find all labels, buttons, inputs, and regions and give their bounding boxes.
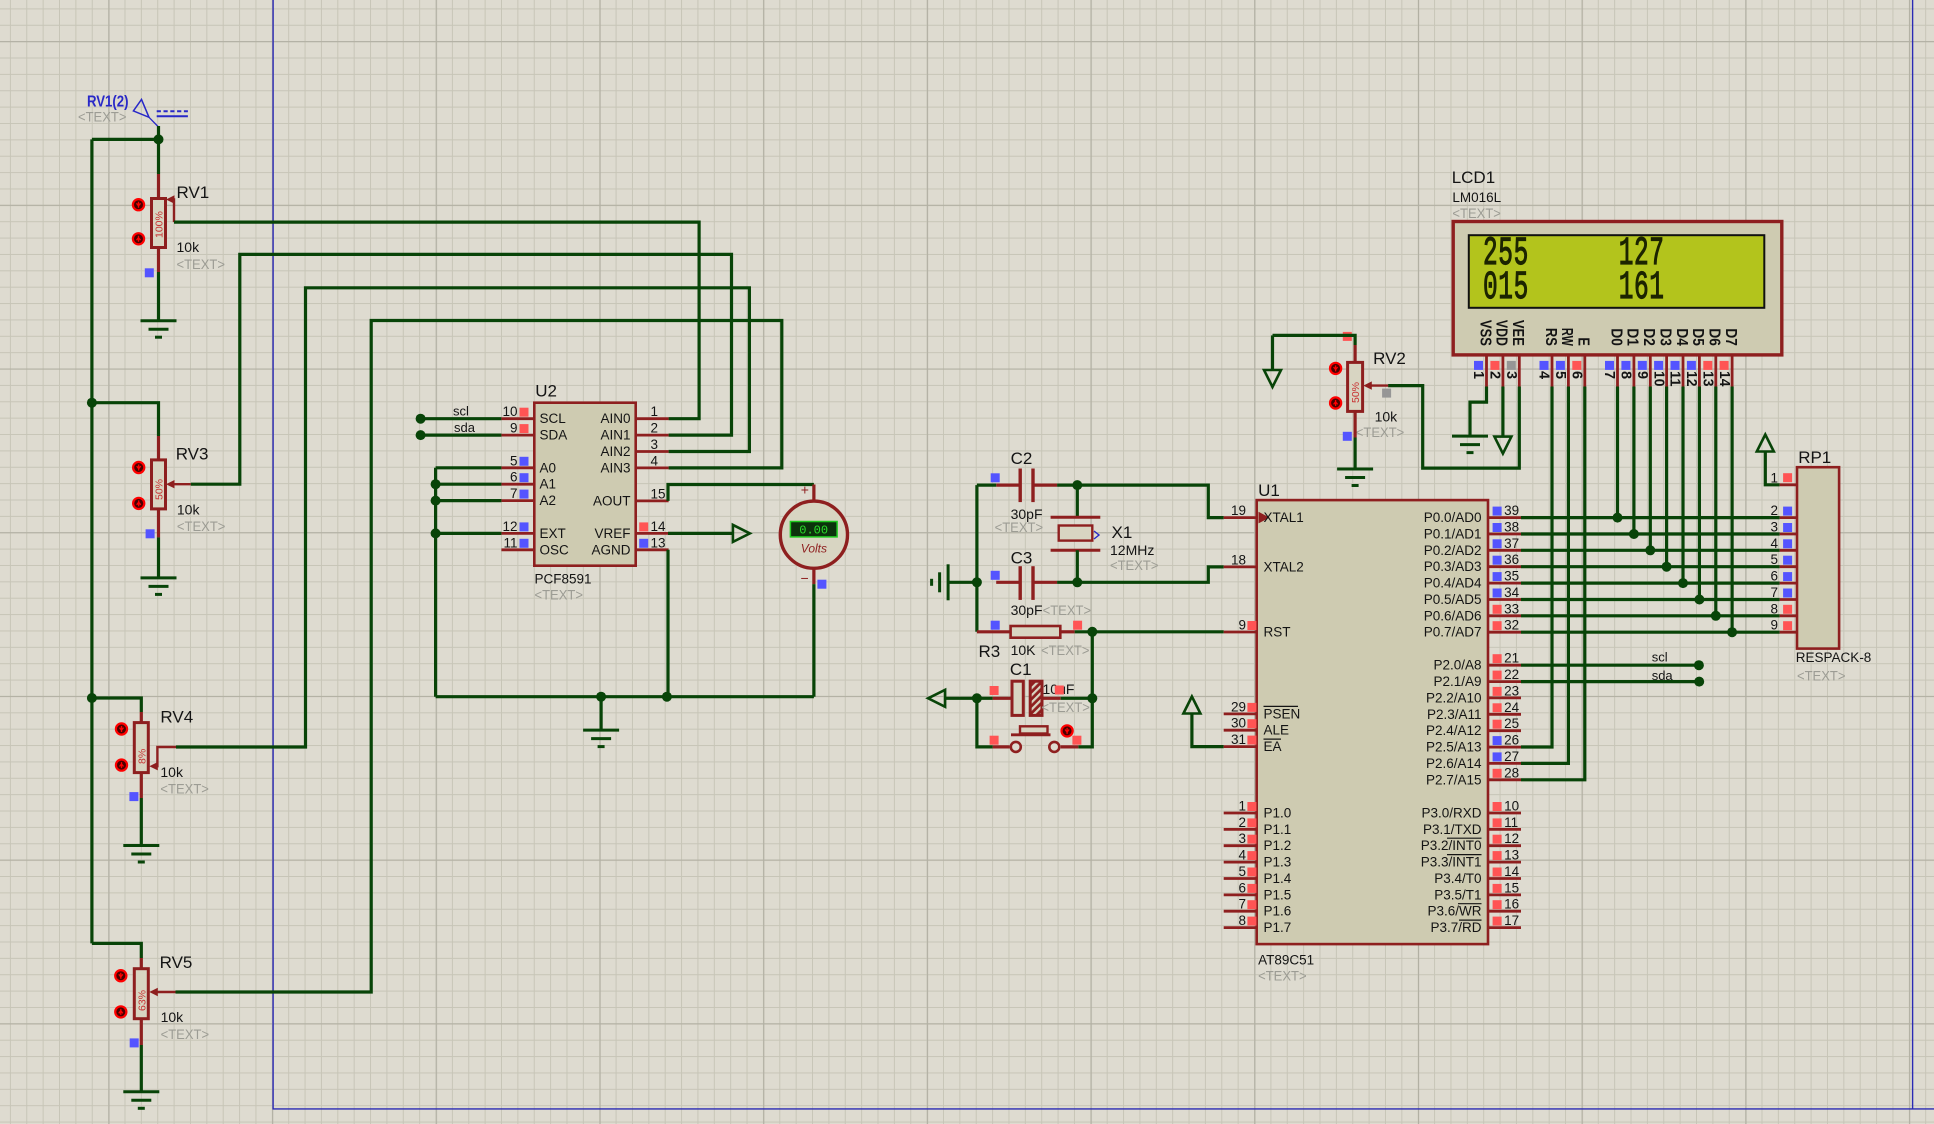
U1 pin 2 P1.1 [1224,828,1257,831]
svg-text:32: 32 [1504,618,1519,633]
svg-text:12: 12 [502,519,517,534]
svg-text:P0.5/AD5: P0.5/AD5 [1424,592,1482,607]
wire U2 AOUT to voltmeter [668,485,814,501]
U1 pin 8 P1.7 [1224,926,1257,929]
terminal arrow EA up [1183,697,1200,714]
junction D1 [1629,529,1639,539]
svg-text:scl: scl [453,404,469,419]
svg-text:1: 1 [1770,470,1778,485]
svg-text:D7: D7 [1722,328,1739,346]
svg-text:P3.6/WR: P3.6/WR [1427,904,1481,919]
svg-text:D6: D6 [1706,328,1723,346]
wire U2 A1 [431,479,441,489]
U1 pin 4 P1.3 [1224,861,1257,864]
U1 pin 27 P2.6/A14 [1488,762,1521,765]
svg-text:7: 7 [1601,371,1617,379]
ground RV5 [123,1092,159,1109]
terminal arrow RP1 up [1757,435,1774,452]
svg-text:AOUT: AOUT [593,493,631,508]
svg-text:Volts: Volts [801,542,827,556]
svg-text:30pF: 30pF [1011,602,1043,618]
tweak buttons RV3 [133,462,144,473]
svg-text:RV2: RV2 [1373,349,1406,368]
svg-text:P3.5/T1: P3.5/T1 [1434,887,1481,902]
svg-text:P2.7/A15: P2.7/A15 [1426,772,1482,787]
svg-text:0.00: 0.00 [799,523,828,537]
U1 pin 31 EA [1224,745,1257,748]
ground left of C3 [932,564,949,600]
junction D4 [1678,578,1688,588]
tweak buttons RV1 [133,199,144,210]
wire C1 node down to button [1078,698,1092,747]
junction ground rail / U2 ground [596,692,606,702]
svg-text:D2: D2 [1640,328,1657,346]
capacitor C3 [991,549,1091,619]
svg-text:12: 12 [1683,371,1699,387]
svg-text:RST: RST [1264,625,1291,640]
svg-text:AIN1: AIN1 [600,428,630,443]
svg-text:C1: C1 [1010,660,1032,679]
svg-text:31: 31 [1231,732,1246,747]
svg-text:P2.1/A9: P2.1/A9 [1433,674,1481,689]
svg-text:5: 5 [1552,371,1568,379]
svg-text:14: 14 [1504,864,1520,879]
wire U2 A2 [431,496,441,506]
U2 pin 5 A0 [501,466,534,469]
svg-text:4: 4 [651,453,659,468]
svg-text:D3: D3 [1656,328,1673,346]
svg-text:D1: D1 [1624,328,1641,346]
wire crystal node to XTAL1 [1077,485,1223,517]
wire RV2 to down arrow [1271,335,1274,370]
svg-text:XTAL1: XTAL1 [1264,510,1304,525]
wire U1 P0.4 to RP1 pin 6 [1521,581,1780,584]
svg-text:R3: R3 [979,642,1001,661]
svg-text:U2: U2 [535,382,557,401]
svg-text:22: 22 [1504,667,1519,682]
U1 pin 39 P0.0/AD0 [1488,516,1521,519]
wire RV1 wiper to AIN0 [174,222,699,419]
wire U2 EXT [431,528,441,538]
svg-text:XTAL2: XTAL2 [1264,559,1304,574]
svg-text:<TEXT>: <TEXT> [177,518,226,534]
svg-text:9: 9 [1634,371,1650,379]
svg-text:RV4: RV4 [160,708,193,727]
wire C2/C3 left rail [975,485,978,632]
svg-text:A1: A1 [540,477,557,492]
svg-text:C2: C2 [1011,449,1033,468]
svg-text:7: 7 [510,486,518,501]
svg-text:P0.6/AD6: P0.6/AD6 [1424,608,1482,623]
wire C1 right [1061,697,1093,700]
svg-text:3: 3 [1503,371,1519,379]
wire left vertical rail [90,139,93,943]
U1 pin 5 P1.4 [1224,877,1257,880]
svg-text:<TEXT>: <TEXT> [995,519,1044,535]
wire R3 right to RST [1075,630,1093,633]
ground U2 [599,697,602,730]
terminal arrow RV2 down [1264,370,1281,387]
junction D0 [1613,513,1623,523]
svg-text:P0.7/AD7: P0.7/AD7 [1424,625,1482,640]
wire RV3 wiper to AIN1 [191,254,732,484]
svg-text:9: 9 [510,421,518,436]
svg-text:P2.3/A11: P2.3/A11 [1427,707,1482,722]
svg-text:P2.6/A14: P2.6/A14 [1426,756,1482,771]
svg-text:17: 17 [1504,913,1519,928]
svg-text:sda: sda [1652,668,1674,683]
RP1 pin 7 [1780,598,1797,601]
svg-text:34: 34 [1504,585,1520,600]
svg-text:25: 25 [1504,716,1519,731]
wire U2 AGND [662,692,672,702]
svg-text:23: 23 [1504,683,1519,698]
svg-text:33: 33 [1504,601,1519,616]
ground RV4 [123,846,159,863]
svg-text:P2.2/A10: P2.2/A10 [1426,690,1482,705]
tweak buttons RV4 [116,723,127,734]
svg-text:AGND: AGND [591,542,630,557]
wire U1 P0.1 to RP1 pin 3 [1521,532,1780,535]
wire LCD D7 vertical [1730,387,1733,633]
U1 pin 10 P3.0/RXD [1488,812,1521,815]
resistor R3 [977,621,1090,661]
svg-text:10k: 10k [161,1009,185,1025]
svg-text:P1.6: P1.6 [1264,904,1292,919]
svg-text:P1.7: P1.7 [1264,920,1292,935]
junction crystal bottom [1072,577,1082,587]
U1 pin 11 P3.1/TXD [1488,828,1521,831]
terminal arrow VDD down [1494,437,1511,454]
svg-text:A2: A2 [540,493,557,508]
wire LCD D4 vertical [1681,387,1684,584]
wire ground rail below U2 [436,695,814,698]
svg-text:<TEXT>: <TEXT> [78,109,127,125]
svg-text:P3.4/T0: P3.4/T0 [1434,871,1481,886]
RP1 pin 6 [1780,582,1797,585]
potentiometer RV5 [134,969,175,1019]
svg-text:36: 36 [1504,552,1519,567]
tweak buttons RV2 [1330,363,1341,374]
svg-text:RW: RW [1558,328,1575,346]
svg-text:39: 39 [1504,503,1519,518]
U1 pin 7 P1.6 [1224,910,1257,913]
svg-text:AT89C51: AT89C51 [1258,953,1314,968]
svg-text:P3.3/INT1: P3.3/INT1 [1421,855,1482,870]
U1 pin 12 P3.2/INT0 [1488,844,1521,847]
U1 pin 9 RST [1224,631,1257,634]
wire RV2 top [1343,332,1352,341]
svg-text:7: 7 [1238,897,1246,912]
U1 pin 19 XTAL1 [1224,516,1257,519]
wire junction to left rail [92,138,159,141]
svg-text:18: 18 [1231,552,1246,567]
junction probe/RV1 [154,134,164,144]
U1 XTAL1 arrow mark [1259,512,1270,524]
wire crystal node to XTAL2 [1077,567,1223,582]
svg-text:SDA: SDA [540,428,568,443]
junction C1 left [972,693,982,703]
potentiometer RV3 [152,460,191,509]
svg-text:P0.4/AD4: P0.4/AD4 [1424,576,1482,591]
svg-text:5: 5 [1770,552,1778,567]
svg-text:RV1: RV1 [177,183,210,202]
U1 pin 29 PSEN [1224,713,1257,716]
wire U1 P0.7 to RP1 pin 9 [1521,631,1780,634]
svg-text:10: 10 [502,404,517,419]
wire arrow to C1 [945,697,993,700]
svg-text:15: 15 [651,486,666,501]
LCD1 module body [1453,222,1782,355]
wire R3 node down to C1 node [1091,632,1094,699]
svg-text:9: 9 [1770,618,1778,633]
svg-text:26: 26 [1504,733,1519,748]
svg-text:14: 14 [1716,371,1732,387]
svg-text:VDD: VDD [1493,320,1510,346]
U1 pin 21 P2.0/A8 [1488,664,1521,667]
U1 pin 15 P3.5/T1 [1488,894,1521,897]
svg-text:RV5: RV5 [160,953,193,972]
svg-text:12: 12 [1504,831,1519,846]
svg-text:EXT: EXT [540,526,566,541]
svg-text:<TEXT>: <TEXT> [535,587,584,603]
U1 pin 28 P2.7/A15 [1488,778,1521,781]
svg-text:4: 4 [1536,371,1552,379]
svg-text:2: 2 [651,421,659,436]
svg-text:2: 2 [1238,815,1246,830]
svg-text:38: 38 [1504,520,1519,535]
svg-text:4: 4 [1770,536,1778,551]
svg-text:X1: X1 [1112,523,1133,542]
LCD1 screen [1469,235,1765,308]
svg-text:P3.2/INT0: P3.2/INT0 [1421,838,1482,853]
svg-text:C3: C3 [1011,549,1033,568]
svg-text:10k: 10k [160,764,184,780]
svg-text:015: 015 [1483,266,1529,311]
svg-text:<TEXT>: <TEXT> [161,1026,210,1042]
svg-text:−: − [801,570,809,586]
U1 pin 1 P1.0 [1224,812,1257,815]
svg-text:19: 19 [1231,503,1246,518]
svg-text:P0.0/AD0: P0.0/AD0 [1424,510,1482,525]
U1 pin 3 P1.2 [1224,844,1257,847]
wire U1 P0.0 to RP1 pin 2 [1521,516,1780,519]
U1 pin 30 ALE [1224,729,1257,732]
terminal arrow VREF [733,525,750,542]
svg-text:14: 14 [651,519,667,534]
ground RV2 [1337,469,1373,486]
wire RV5 bottom lead [140,1019,143,1045]
svg-text:9: 9 [1238,618,1246,633]
svg-text:<TEXT>: <TEXT> [160,781,209,797]
junction rail RV4 [87,693,97,703]
U1 pin 34 P0.5/AD5 [1488,598,1521,601]
svg-text:D4: D4 [1673,328,1690,346]
svg-text:AIN2: AIN2 [600,444,630,459]
svg-text:RS: RS [1542,328,1559,346]
junction crystal top [1072,480,1082,490]
svg-text:16: 16 [1504,897,1519,912]
wire voltmeter minus to ground rail [812,584,815,697]
svg-text:OSC: OSC [540,542,570,557]
RP1 pin 5 [1780,565,1797,568]
wire U2 VREF terminal [668,532,733,535]
svg-text:37: 37 [1504,536,1519,551]
svg-text:VREF: VREF [594,526,630,541]
svg-text:<TEXT>: <TEXT> [177,256,226,272]
svg-text:8: 8 [1618,371,1634,379]
svg-text:scl: scl [1652,650,1668,665]
wire LCD D0 vertical [1616,387,1619,518]
U1 pin 14 P3.4/T0 [1488,877,1521,880]
svg-text:<TEXT>: <TEXT> [1041,699,1090,715]
svg-text:PCF8591: PCF8591 [535,572,592,587]
wire RV4 wiper to AIN2 [176,288,749,747]
RP1 pin 2 [1780,516,1797,519]
U2 pin 13 AGND [636,548,669,551]
svg-text:5: 5 [1238,864,1246,879]
svg-text:P3.7/RD: P3.7/RD [1430,920,1481,935]
U1 pin 22 P2.1/A9 [1488,680,1521,683]
svg-text:SCL: SCL [540,411,567,426]
svg-text:10k: 10k [1375,409,1399,425]
U2 pin 3 AIN2 [636,450,669,453]
U1 pin 26 P2.5/A13 [1488,746,1521,749]
wire LCD VSS to ground [1470,387,1487,437]
wire RV1 top lead [157,139,160,174]
voltmeter [780,482,847,589]
svg-text:24: 24 [1504,700,1520,715]
wire U1 P0.3 to RP1 pin 5 [1521,565,1780,568]
U2 pin 4 AIN3 [636,466,669,469]
svg-text:ALE: ALE [1264,723,1290,738]
U2 pin 7 A2 [501,499,534,502]
MCU U1 AT89C51 body [1257,500,1488,944]
svg-text:P1.5: P1.5 [1264,887,1292,902]
LCD text row2 [1483,266,1529,311]
svg-text:2: 2 [1487,371,1503,379]
svg-text:EA: EA [1264,739,1282,754]
svg-text:7: 7 [1770,585,1778,600]
svg-text:13: 13 [651,535,666,550]
U2 pin 6 A1 [501,483,534,486]
wire U1 P2.0 scl [1521,664,1699,667]
svg-text:50%: 50% [154,479,166,500]
LCD text row1 [1483,232,1529,277]
svg-text:A0: A0 [540,460,557,475]
svg-text:RV3: RV3 [176,445,209,464]
junction D7 [1727,627,1737,637]
svg-text:21: 21 [1504,651,1519,666]
wire LCD VEE to RV2 wiper [1388,386,1519,469]
U1 pin 36 P0.3/AD3 [1488,565,1521,568]
U2 pin 11 OSC [501,548,534,551]
U1 pin 38 P0.1/AD1 [1488,533,1521,536]
wire LCD D5 vertical [1698,387,1701,600]
svg-text:8: 8 [1238,913,1246,928]
U2 pin 1 AIN0 [636,417,669,420]
svg-text:AIN3: AIN3 [600,460,630,475]
svg-text:<TEXT>: <TEXT> [1452,205,1501,221]
svg-text:6: 6 [510,470,518,485]
wire button left leg [977,698,993,747]
U1 pin 24 P2.3/A11 [1488,713,1521,716]
svg-text:P0.3/AD3: P0.3/AD3 [1424,559,1482,574]
wire RV4 bottom lead [140,773,143,798]
junction D5 [1694,595,1704,605]
wire RP1 pin1 [1765,452,1779,485]
U1 pin 35 P0.4/AD4 [1488,582,1521,585]
U1 pin 17 P3.7/RD [1488,926,1521,929]
resistor pack RP1 body [1797,467,1839,648]
svg-text:P3.0/RXD: P3.0/RXD [1421,806,1481,821]
tweak buttons RV5 [115,970,126,981]
svg-text:6: 6 [1770,569,1778,584]
svg-text:6: 6 [1569,371,1585,379]
svg-text:28: 28 [1504,765,1519,780]
svg-text:5: 5 [510,453,518,468]
svg-text:1: 1 [1470,371,1486,379]
junction D2 [1645,545,1655,555]
svg-text:161: 161 [1619,266,1665,311]
svg-text:63%: 63% [136,990,148,1011]
svg-text:11: 11 [503,535,517,550]
svg-text:RESPACK-8: RESPACK-8 [1796,650,1872,665]
wire EA terminal [1192,714,1224,747]
svg-text:D0: D0 [1607,328,1624,346]
svg-text:P2.0/A8: P2.0/A8 [1433,658,1481,673]
svg-text:3: 3 [1770,520,1778,535]
svg-text:PSEN: PSEN [1264,706,1301,721]
svg-text:27: 27 [1504,749,1519,764]
capacitor C1 [990,660,1090,715]
svg-text:29: 29 [1231,699,1246,714]
svg-text:10k: 10k [177,502,201,518]
svg-text:10: 10 [1650,371,1666,387]
svg-text:<TEXT>: <TEXT> [1043,602,1092,618]
RP1 pin 9 [1780,631,1797,634]
svg-text:8%: 8% [136,749,148,764]
wire RV4 top lead [92,698,141,712]
svg-text:LM016L: LM016L [1452,190,1501,205]
svg-text:+: + [801,482,809,498]
wire RV5 top lead [92,943,141,958]
wire RV3 top lead [92,403,159,436]
wire C2 left [977,484,996,487]
svg-text:VEE: VEE [1509,320,1526,346]
svg-text:3: 3 [1238,831,1246,846]
svg-text:LCD1: LCD1 [1452,168,1495,187]
U2 pin 12 EXT [501,532,534,535]
wire C2 right to crystal node [1057,484,1077,487]
U1 pin 16 P3.6/WR [1488,910,1521,913]
wire RV3 bottom lead [157,509,160,538]
svg-text:8: 8 [1770,601,1778,616]
wire LCD D1 vertical [1632,387,1635,535]
U1 pin 13 P3.3/INT1 [1488,861,1521,864]
svg-text:10k: 10k [177,239,201,255]
wire U1 P0.2 to RP1 pin 4 [1521,549,1780,552]
ground RV1 [141,321,177,338]
svg-text:<TEXT>: <TEXT> [1258,968,1307,984]
svg-text:U1: U1 [1258,481,1280,500]
svg-text:E: E [1575,337,1592,346]
potentiometer RV2 [1348,362,1389,411]
svg-text:35: 35 [1504,569,1519,584]
svg-text:P0.1/AD1: P0.1/AD1 [1424,527,1482,542]
capacitor C2 [991,449,1057,535]
wire LCD D3 vertical [1665,387,1668,567]
